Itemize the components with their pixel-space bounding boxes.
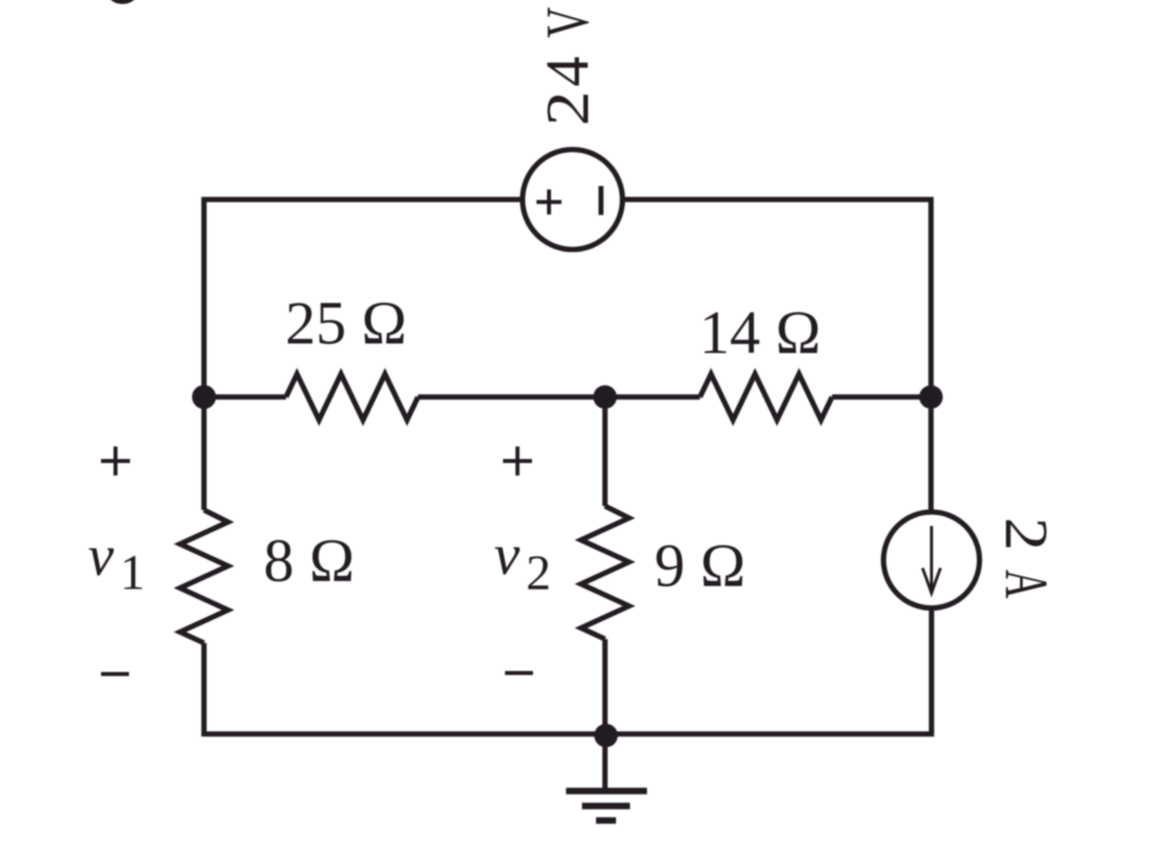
- svg-text:8 Ω: 8 Ω: [263, 528, 354, 595]
- node G (bottom/ground junction dot): [594, 724, 618, 748]
- resistor R 8 ohm (vertical zigzag, on left wire): [180, 510, 228, 643]
- cropped figure bullet (top edge): [109, 0, 136, 4]
- wire: top-right horizontal (voltage source to top-right corner) then right side down to node: [625, 200, 931, 398]
- voltage source Vs 24 V (circle): [523, 150, 623, 250]
- wire: left side below 8 ohm resistor down to bottom-left corner: [201, 643, 206, 737]
- wire: 25 ohm resistor to middle node: [418, 394, 605, 399]
- wire: below 9 ohm resistor to bottom node: [602, 639, 607, 737]
- svg-text:v: v: [494, 522, 520, 587]
- wire: current source to bottom-right corner, then bottom wire: [204, 608, 932, 734]
- polarity minus for v1: [101, 672, 129, 676]
- svg-text:25 Ω: 25 Ω: [285, 291, 407, 358]
- voltage source plus sign: [537, 190, 562, 215]
- svg-text:9 Ω: 9 Ω: [654, 533, 745, 600]
- resistor R 9 ohm (vertical zigzag): [581, 506, 629, 639]
- polarity plus for v1: [101, 447, 130, 476]
- node C (right junction dot): [919, 385, 943, 409]
- wire: left side up from 8 ohm resistor, then top wire to voltage source: [204, 200, 520, 511]
- resistor R 25 ohm (zigzag): [286, 374, 418, 420]
- svg-text:v: v: [88, 523, 114, 588]
- resistor R 14 ohm (zigzag): [700, 374, 832, 420]
- wire: middle row, left node to 25 ohm resistor: [204, 394, 286, 399]
- svg-text:2: 2: [993, 517, 1061, 551]
- svg-text:2: 2: [526, 544, 551, 600]
- wire: middle node to 14 ohm resistor: [605, 394, 700, 399]
- svg-text:4: 4: [535, 56, 602, 87]
- current source arrow (pointing down): [923, 526, 941, 593]
- wire: 14 ohm resistor to right node: [832, 394, 931, 399]
- wire: middle vertical, node to 9 ohm resistor: [602, 397, 607, 506]
- svg-text:14 Ω: 14 Ω: [699, 300, 821, 367]
- svg-text:2: 2: [534, 91, 602, 126]
- svg-text:A: A: [992, 569, 1059, 598]
- current source Is 2 A (circle): [884, 512, 980, 608]
- polarity plus for v2: [503, 447, 532, 476]
- svg-text:V: V: [535, 7, 602, 38]
- svg-text:1: 1: [120, 544, 145, 600]
- wire: right side, node down to current source: [928, 397, 933, 512]
- voltage source minus sign (rotated): [599, 186, 604, 215]
- ground (stub and three bars): [602, 736, 607, 789]
- node B (middle junction dot): [593, 385, 617, 409]
- polarity minus for v2: [505, 671, 533, 675]
- node A (left middle junction dot): [192, 385, 216, 409]
